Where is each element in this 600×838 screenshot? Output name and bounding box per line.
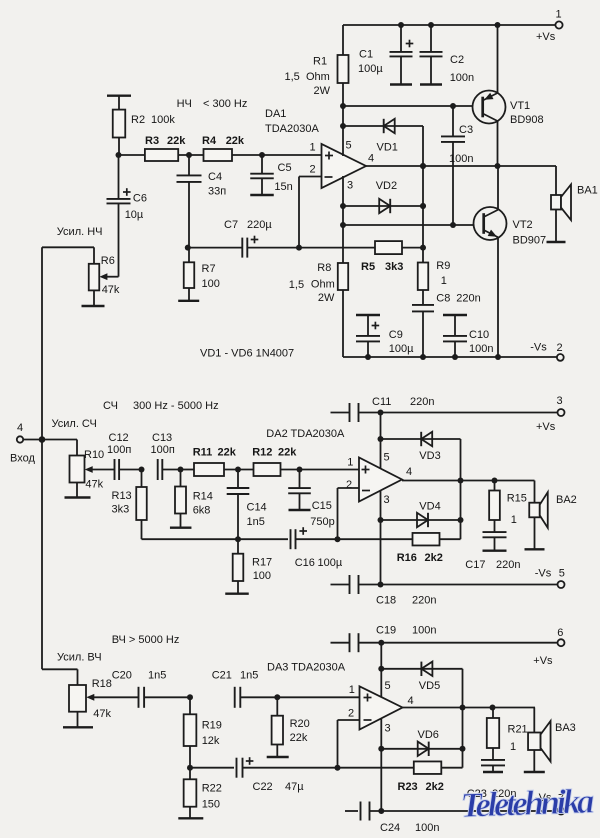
resistor R21 [487,708,528,761]
svg-text:Ohm: Ohm [311,279,335,291]
svg-text:-Vs: -Vs [530,342,547,354]
svg-text:47k: 47k [85,479,103,491]
svg-text:47k: 47k [93,708,111,720]
resistor R9 [418,248,451,305]
svg-text:Усил. НЧ: Усил. НЧ [57,226,103,238]
svg-text:5: 5 [385,680,391,692]
svg-text:150: 150 [202,798,220,810]
svg-text:R3: R3 [145,135,159,147]
capacitor C6 [107,155,147,277]
svg-text:C12: C12 [109,432,129,444]
capacitor C18 and -Vs rail MF [331,575,558,607]
svg-text:Усил. СЧ: Усил. СЧ [52,418,97,430]
svg-text:C13: C13 [152,432,172,444]
svg-text:33п: 33п [208,186,226,198]
svg-text:2k2: 2k2 [426,781,444,793]
ground R18 [63,726,93,728]
wire DA3 pin1 input [277,696,359,698]
svg-text:5: 5 [346,140,352,152]
svg-text:R10: R10 [84,449,104,461]
svg-text:100n: 100n [449,153,473,165]
svg-text:220n: 220n [496,559,520,571]
svg-text:10µ: 10µ [125,209,144,221]
resistor R22 [184,768,222,819]
svg-text:C4: C4 [208,171,222,183]
svg-text:R20: R20 [290,718,310,730]
wire DA1 pin5 supply [340,106,346,156]
wire +Vs top rail [343,24,555,26]
svg-text:+Vs: +Vs [533,655,553,667]
svg-text:R21: R21 [508,724,528,736]
svg-text:C10: C10 [469,329,489,341]
svg-text:C11: C11 [372,396,391,408]
op-amp DA3 TDA2030A [360,686,403,729]
svg-text:R16: R16 [397,552,417,564]
svg-text:22k: 22k [167,135,186,147]
capacitor C13 [151,432,181,480]
svg-text:1n5: 1n5 [247,516,265,528]
svg-text:3: 3 [347,180,353,192]
svg-text:C21: C21 [212,669,232,681]
svg-text:R18: R18 [92,678,112,690]
speaker BA3 [524,708,576,773]
wire DA1 pin1 input [232,152,321,158]
svg-text:VD5: VD5 [419,680,440,692]
svg-text:C22: C22 [253,781,273,793]
svg-text:1,5: 1,5 [289,279,304,291]
svg-text:R19: R19 [202,719,222,731]
svg-text:C17: C17 [465,559,485,571]
svg-text:1: 1 [349,684,355,696]
diode VD4 [381,500,461,527]
wire MF pickoff [42,440,77,456]
svg-text:R17: R17 [252,557,272,569]
svg-text:BD908: BD908 [510,114,544,126]
resistor R2 [107,96,175,155]
ground R7 [178,300,199,302]
resistor R5 [299,241,423,273]
wire input to bus [23,436,45,443]
svg-text:ВЧ > 5000 Hz: ВЧ > 5000 Hz [112,634,180,646]
resistor R3 [145,135,186,161]
wire VD3 VD4 output link vertical [458,439,464,539]
op-amp DA1 TDA2030A [265,108,366,188]
terminal 3 +Vs [536,395,565,433]
node C21 R20 junction [274,694,280,700]
resistor R20 [272,697,310,757]
svg-text:VD4: VD4 [419,500,440,512]
svg-text:4: 4 [368,153,374,165]
wire HF feedback row [187,765,234,771]
wire DA2 pin1 input [281,467,360,473]
svg-text:R2: R2 [131,114,145,126]
capacitor C1 [358,25,413,85]
wire VT1 base node [340,103,473,109]
svg-text:220µ: 220µ [247,219,272,231]
capacitor C24 and -Vs rail HF [345,802,557,835]
svg-text:R13: R13 [112,490,132,502]
svg-text:BA3: BA3 [555,722,576,734]
op-amp DA2 TDA2030A [359,458,402,502]
capacitor C11 and +Vs rail MF [331,396,558,422]
svg-text:R5: R5 [361,261,375,273]
node C12 C13 junction [139,467,145,473]
wire DA3 pin3 supply [378,718,384,814]
svg-text:220n: 220n [412,595,436,607]
svg-text:100n: 100n [450,72,474,84]
speaker BA2 [525,481,577,550]
svg-text:100µ: 100µ [389,343,414,355]
svg-text:100µ: 100µ [358,63,383,75]
svg-text:Усил. ВЧ: Усил. ВЧ [57,652,102,664]
terminal 2 -Vs [530,342,563,361]
svg-text:Ohm: Ohm [306,71,330,83]
resistor R4 [202,135,245,161]
capacitor C15 [288,470,335,529]
wire HF pickoff [42,669,78,685]
svg-text:DA3 TDA2030A: DA3 TDA2030A [267,662,346,674]
svg-text:220n: 220n [410,396,434,408]
title MF channel [103,400,219,412]
svg-text:R9: R9 [436,260,450,272]
terminal 4 input [10,422,35,465]
wire MF output node [402,478,535,484]
svg-text:3: 3 [385,723,391,735]
svg-text:2k2: 2k2 [425,552,443,564]
svg-text:3k3: 3k3 [112,504,130,516]
svg-text:1: 1 [441,275,447,287]
svg-text:2: 2 [348,708,354,720]
svg-text:BA2: BA2 [556,494,577,506]
svg-text:100n: 100n [415,822,439,833]
ground R14 [170,527,192,529]
wire DA1 pin2 feedback [296,177,321,251]
terminal 6 +Vs [533,627,564,667]
wire DA2 pin2 feedback [335,488,360,542]
svg-text:BD907: BD907 [513,235,547,247]
wire R3 R4 link [178,152,203,158]
wire MF feedback row [142,536,289,542]
potentiometer R18 [69,678,138,727]
svg-text:Вход: Вход [10,453,35,465]
svg-text:R4: R4 [202,135,217,147]
resistor R12 [252,446,297,476]
terminal 1 +Vs [536,9,563,44]
svg-text:2: 2 [310,164,316,176]
resistor R11 [181,446,237,476]
svg-text:1: 1 [347,457,353,469]
capacitor C19 and +Vs rail HF [331,624,558,652]
svg-text:300 Hz - 5000 Hz: 300 Hz - 5000 Hz [133,400,219,412]
svg-text:100п: 100п [151,444,175,456]
svg-text:3: 3 [384,494,390,506]
svg-text:100: 100 [202,278,220,290]
svg-text:6k8: 6k8 [193,505,211,517]
capacitor C16 [291,527,343,569]
svg-text:DA2 TDA2030A: DA2 TDA2030A [266,428,345,440]
svg-text:4: 4 [406,466,412,478]
transistor VT2 BD907 [474,166,547,357]
svg-text:DA1: DA1 [265,108,286,120]
wire DA2 pin3 supply [378,491,384,588]
svg-text:1: 1 [556,9,562,21]
ground R22 [178,817,203,819]
svg-text:VD1: VD1 [377,142,398,154]
svg-text:BA1: BA1 [577,185,598,197]
capacitor C8 [412,292,481,357]
wire input bus [41,247,43,669]
svg-text:C9: C9 [389,329,403,341]
svg-text:6: 6 [557,627,563,639]
svg-text:VD3: VD3 [419,450,440,462]
svg-text:750p: 750p [310,516,334,528]
node R2 R3 junction [116,152,145,158]
resistor R8 [289,176,348,357]
svg-text:3k3: 3k3 [385,261,403,273]
svg-text:-Vs: -Vs [535,568,552,580]
svg-text:R15: R15 [507,492,527,504]
capacitor C5 [250,155,293,195]
svg-text:12k: 12k [202,735,220,747]
svg-text:НЧ: НЧ [177,98,192,110]
resistor R14 [175,470,213,528]
capacitor C10 [443,315,493,357]
node C13 R11 junction [178,467,184,473]
capacitor C14 [227,470,267,540]
svg-text:R8: R8 [317,262,331,274]
svg-text:R12: R12 [252,446,272,458]
svg-text:1: 1 [510,741,516,753]
svg-text:22k: 22k [278,446,297,458]
svg-text:C3: C3 [459,124,473,136]
svg-text:100k: 100k [151,114,175,126]
diode VD2 [340,180,426,213]
resistor R13 [112,470,147,540]
svg-text:VD1 - VD6 1N4007: VD1 - VD6 1N4007 [200,348,294,360]
wire LF output node [366,163,556,169]
svg-text:220n: 220n [456,292,480,304]
svg-text:C19: C19 [376,624,396,636]
capacitor C22 [237,757,338,793]
svg-text:2W: 2W [318,292,335,304]
svg-text:Teletehnika: Teletehnika [460,781,595,825]
capacitor C4 [177,155,227,248]
svg-text:+Vs: +Vs [536,31,556,43]
terminal 7 -Vs [535,792,565,815]
svg-text:C1: C1 [359,49,373,61]
wire -Vs bottom rail LF [343,354,557,360]
diode VD3 [381,432,461,462]
svg-text:1: 1 [511,514,517,526]
resistor R16 [338,533,461,564]
wire VD1 VD2 output link vertical [420,126,426,251]
transistor VT1 BD908 [473,25,544,166]
capacitor C9 [356,315,414,357]
resistor R19 [184,697,222,767]
svg-text:1: 1 [310,142,316,154]
svg-text:5: 5 [384,452,390,464]
wire HF output node [403,705,536,711]
ground R6 [82,305,105,307]
svg-text:100µ: 100µ [318,557,343,569]
svg-text:+Vs: +Vs [536,421,556,433]
svg-text:VD6: VD6 [418,729,439,741]
svg-text:47µ: 47µ [285,781,304,793]
svg-text:3: 3 [557,395,563,407]
svg-text:4: 4 [408,695,414,707]
svg-text:15n: 15n [274,181,292,193]
svg-text:VT2: VT2 [513,219,533,231]
svg-text:C15: C15 [312,500,332,512]
wire R11 R12 link [224,467,254,473]
resistor R1 [285,25,349,106]
svg-text:47k: 47k [102,284,120,296]
svg-text:C14: C14 [247,502,267,514]
potentiometer R10 [70,449,115,498]
diode VD5 [381,662,462,692]
svg-text:1n5: 1n5 [148,669,166,681]
capacitor C7 [188,219,299,258]
svg-text:C6: C6 [133,193,147,205]
svg-text:22k: 22k [218,446,237,458]
wire DA3 pin2 feedback [335,720,360,771]
svg-text:100п: 100п [107,444,131,456]
ground R17 [225,593,249,595]
svg-text:4: 4 [17,422,23,434]
capacitor C20 [112,669,190,708]
svg-text:R23: R23 [398,781,418,793]
resistor R15 [489,481,527,533]
capacitor C17 [465,532,520,571]
node C20 C21 junction [187,694,193,700]
svg-text:R7: R7 [202,263,216,275]
svg-text:C18: C18 [376,595,396,607]
capacitor C23 [467,760,517,800]
wire DA2 pin5 supply [378,410,384,469]
svg-text:VT1: VT1 [510,100,530,112]
speaker BA1 [547,166,598,242]
svg-text:TDA2030A: TDA2030A [265,123,319,135]
svg-text:C24: C24 [380,822,400,833]
ground R20 [267,756,289,758]
svg-text:5: 5 [559,568,565,580]
wire DA3 pin5 supply [378,640,384,697]
svg-text:R14: R14 [193,490,213,502]
wire VD5 VD6 output link vertical [460,669,466,768]
svg-text:< 300 Hz: < 300 Hz [203,98,247,110]
svg-text:1,5: 1,5 [285,71,300,83]
svg-text:2: 2 [346,479,352,491]
diode VD6 [381,729,462,756]
svg-text:R6: R6 [101,255,115,267]
potentiometer R6 [89,247,120,306]
svg-text:100n: 100n [412,624,436,636]
svg-text:C20: C20 [112,669,132,681]
svg-text:VD2: VD2 [376,180,397,192]
svg-text:100: 100 [253,570,271,582]
svg-text:СЧ: СЧ [103,400,118,412]
svg-text:2W: 2W [314,85,331,97]
svg-text:R11: R11 [193,446,213,458]
svg-text:C5: C5 [278,162,292,174]
svg-text:C7: C7 [224,219,238,231]
svg-text:22k: 22k [226,135,245,147]
wire VT2 base node [340,222,474,228]
resistor R7 [184,245,220,301]
svg-text:C16: C16 [295,557,315,569]
svg-text:C2: C2 [450,54,464,66]
svg-text:2: 2 [557,342,563,354]
svg-text:C8: C8 [436,292,450,304]
capacitor C12 [107,432,142,480]
ground R10 [65,496,91,498]
diode VD1 [343,119,423,154]
resistor R23 [338,761,463,793]
wire LF pickoff [42,246,94,248]
capacitor C3 [441,106,473,225]
resistor R17 [233,539,272,594]
svg-text:R22: R22 [202,783,222,795]
svg-text:R1: R1 [313,56,327,68]
svg-text:100n: 100n [469,343,493,355]
svg-text:22k: 22k [290,732,308,744]
capacitor C2 [420,25,475,85]
terminal 5 -Vs [535,568,565,589]
svg-text:1n5: 1n5 [240,669,258,681]
capacitor C21 [212,669,278,708]
node R1 top rail junctions [398,22,501,28]
